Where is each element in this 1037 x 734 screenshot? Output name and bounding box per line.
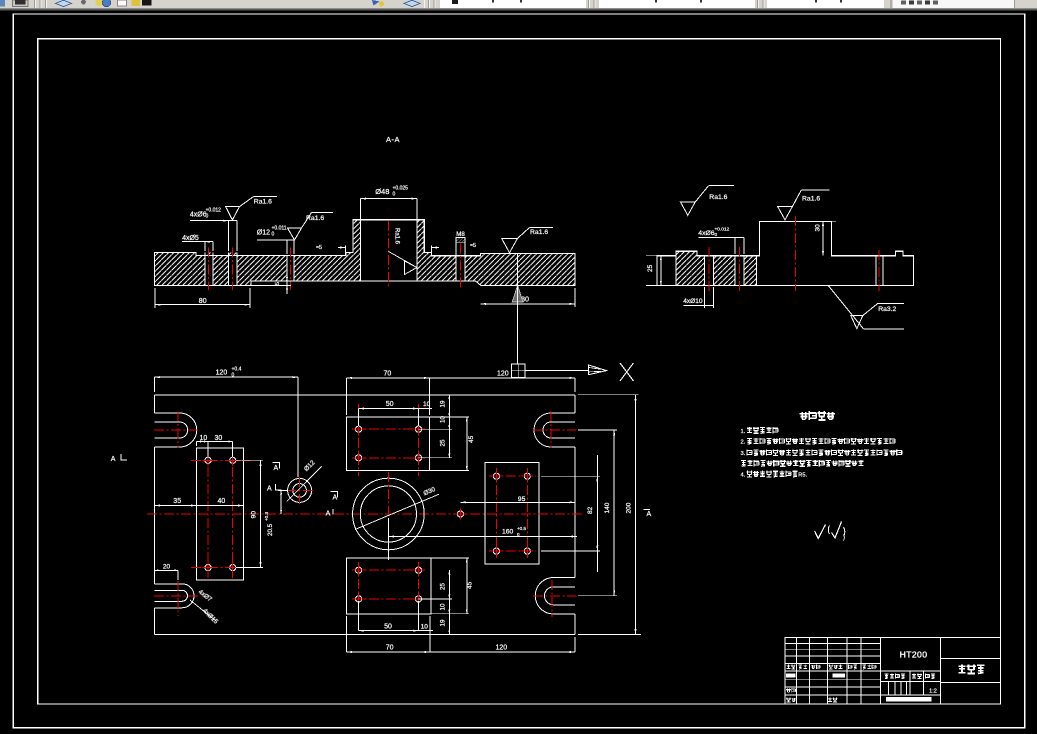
svg-text:35: 35 xyxy=(173,498,181,505)
svg-text:1.: 1. xyxy=(741,429,746,435)
svg-text:200: 200 xyxy=(626,502,633,513)
svg-text:10: 10 xyxy=(440,603,447,610)
svg-text:≈5: ≈5 xyxy=(470,243,476,249)
svg-text:Ra1.6: Ra1.6 xyxy=(306,215,324,222)
svg-text:Ra3.2: Ra3.2 xyxy=(878,306,896,313)
svg-text:10: 10 xyxy=(440,416,447,423)
svg-text:50: 50 xyxy=(384,624,392,631)
svg-text:1:2: 1:2 xyxy=(929,688,937,694)
svg-text:M8: M8 xyxy=(456,231,465,238)
svg-text:160: 160 xyxy=(502,529,514,536)
svg-text:4.: 4. xyxy=(741,473,746,479)
svg-text:A: A xyxy=(647,511,652,518)
svg-text:4xØ6: 4xØ6 xyxy=(698,230,714,237)
svg-text:Ra1.6: Ra1.6 xyxy=(802,196,820,203)
svg-text:20: 20 xyxy=(163,563,171,570)
svg-text:≈5: ≈5 xyxy=(316,245,322,251)
svg-text:0: 0 xyxy=(517,532,520,537)
svg-text:A: A xyxy=(274,465,279,472)
svg-text:80: 80 xyxy=(199,296,207,305)
svg-text:0: 0 xyxy=(393,192,396,198)
svg-text:120: 120 xyxy=(497,371,509,378)
svg-text:25: 25 xyxy=(647,264,654,272)
svg-text:Ra1.6: Ra1.6 xyxy=(254,198,272,205)
svg-text:Ø12: Ø12 xyxy=(257,230,270,237)
svg-text:30: 30 xyxy=(815,224,822,232)
svg-text:5: 5 xyxy=(275,282,281,285)
svg-text:+0.012: +0.012 xyxy=(715,227,730,233)
svg-text:+0.5: +0.5 xyxy=(517,526,527,531)
svg-text:10: 10 xyxy=(200,435,208,442)
svg-text:+0.3: +0.3 xyxy=(264,511,269,521)
svg-text:0: 0 xyxy=(232,373,235,379)
svg-text:25: 25 xyxy=(440,583,447,590)
svg-text:Ra1.6: Ra1.6 xyxy=(394,228,400,245)
svg-text:0: 0 xyxy=(206,214,209,220)
svg-text:A: A xyxy=(111,456,116,463)
svg-text:45: 45 xyxy=(468,435,475,443)
svg-text:82: 82 xyxy=(587,506,594,514)
svg-text:70: 70 xyxy=(386,645,394,652)
svg-text:Ra1.6: Ra1.6 xyxy=(709,194,727,201)
svg-text:0: 0 xyxy=(272,232,275,238)
svg-text:R5.: R5. xyxy=(798,473,807,479)
svg-text:40: 40 xyxy=(218,498,226,505)
svg-text:90: 90 xyxy=(251,511,258,519)
svg-text:Ø48: Ø48 xyxy=(375,187,389,196)
svg-text:3.: 3. xyxy=(741,451,746,457)
svg-text:10: 10 xyxy=(421,624,429,631)
svg-text:10: 10 xyxy=(423,401,431,408)
svg-text:140: 140 xyxy=(604,502,611,513)
svg-text:45: 45 xyxy=(467,581,474,589)
svg-text:120: 120 xyxy=(216,370,228,377)
svg-text:4xØ10: 4xØ10 xyxy=(683,298,703,305)
svg-text:A: A xyxy=(326,511,331,518)
svg-text:95: 95 xyxy=(518,496,526,503)
svg-text:HT200: HT200 xyxy=(900,649,928,659)
svg-text:A: A xyxy=(333,495,338,502)
svg-text:19: 19 xyxy=(440,400,447,407)
svg-text:A-A: A-A xyxy=(386,135,400,144)
svg-text:20.5: 20.5 xyxy=(267,523,274,536)
svg-text:2.: 2. xyxy=(741,440,746,446)
svg-text:25: 25 xyxy=(440,439,447,446)
svg-text:4xØ5: 4xØ5 xyxy=(182,235,199,242)
svg-text:): ) xyxy=(843,535,845,541)
svg-text:0: 0 xyxy=(715,232,718,238)
svg-text:50: 50 xyxy=(386,401,394,408)
svg-text:19: 19 xyxy=(440,619,447,626)
svg-text:120: 120 xyxy=(496,645,508,652)
svg-text:A: A xyxy=(267,486,272,493)
svg-text:Ra1.6: Ra1.6 xyxy=(530,229,548,236)
svg-text:4xØ6: 4xØ6 xyxy=(190,212,207,219)
svg-text:30: 30 xyxy=(215,435,223,442)
svg-text:70: 70 xyxy=(384,371,392,378)
